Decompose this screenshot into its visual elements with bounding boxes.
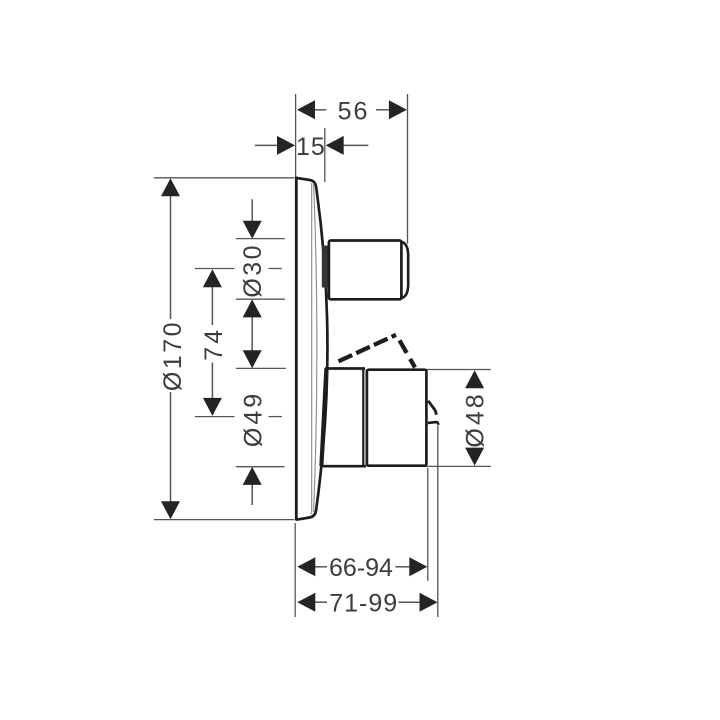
handle sleeve end at plate [321, 368, 326, 466]
sleeve grip divider line 1 [362, 369, 364, 467]
svg-text:74: 74 [200, 327, 228, 361]
extension line: plate front apex top [324, 128, 326, 182]
dimension &#216;30: knob diameter [236, 199, 285, 299]
escutcheon plate back edge [295, 177, 298, 521]
dimension 74: axis distance [195, 269, 282, 417]
svg-text:Ø49: Ø49 [240, 391, 268, 447]
dimension &#216;170: plate diameter [154, 178, 294, 520]
shut-off knob hidden collar strip [322, 246, 329, 288]
handle sleeve bottom edge [321, 465, 367, 468]
sleeve grip divider line 2 [366, 370, 368, 466]
lever bump lower edge [428, 422, 439, 425]
dimension 56: wall to knob face [297, 98, 407, 126]
lever bump upper edge [428, 401, 436, 415]
plate crease line 2 [314, 183, 317, 512]
extension line: knob front face [407, 94, 409, 244]
dimension &#216;49: sleeve diameter [236, 368, 286, 505]
svg-text:Ø170: Ø170 [159, 320, 187, 391]
extension line: wall plane top [295, 94, 297, 177]
svg-text:15: 15 [296, 133, 326, 161]
plate crease line 1 [311, 183, 313, 514]
dashed rotated grip top edge [339, 335, 397, 362]
shut-off knob body [329, 241, 402, 300]
dimension 15: plate thickness [255, 133, 368, 161]
svg-text:56: 56 [338, 98, 370, 126]
extension line: lever tip bottom [437, 426, 439, 618]
svg-text:71-99: 71-99 [329, 589, 398, 617]
svg-text:66-94: 66-94 [329, 554, 393, 582]
dashed rotated grip front edge [400, 340, 416, 367]
dimension &#216;48: grip diameter [426, 370, 491, 467]
extension line: wall plane bottom [294, 523, 296, 617]
shared dimension stem between &#216;30 and &#216;49 [243, 299, 262, 368]
escutcheon plate outline [296, 178, 327, 520]
svg-text:Ø48: Ø48 [462, 391, 490, 447]
handle grip body [367, 370, 427, 466]
handle sleeve top edge [325, 367, 365, 370]
shut-off knob front cap [401, 242, 408, 299]
dimension 71-99: wall to lever tip [297, 589, 437, 617]
extension line: grip front face bottom [427, 468, 429, 581]
dimension 66-94: wall to grip face [297, 554, 427, 582]
svg-text:Ø30: Ø30 [239, 243, 267, 298]
